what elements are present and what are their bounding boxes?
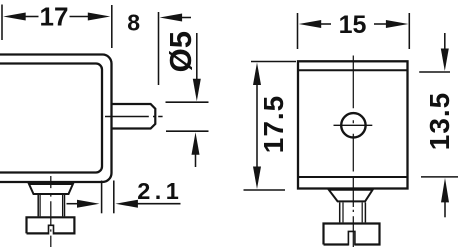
dim 17.5 top extension line [251,61,296,63]
dim 13.5 bottom extension line [421,176,458,178]
screw shank thread lines (right view) [339,203,341,223]
vertical center line (right view) [352,56,354,247]
dim 13.5 bottom arrow with tail [441,178,449,203]
svg-text:13.5: 13.5 [424,92,455,151]
dim 2.1 left arrow with tail [67,203,80,205]
svg-text:17.5: 17.5 [258,95,289,154]
bracket inner contour (left view) [0,64,102,173]
dim 17 dimension line [24,16,39,18]
dim 8 right extension line [158,12,160,85]
dim 13.5 top arrow with tail [444,33,446,51]
svg-text:2.1: 2.1 [137,178,183,204]
dim 17 right arrow / dim 8 left arrow [88,13,111,21]
screw flange trapezoid (right view) [329,190,373,202]
dim 17.5 dimension line [256,71,258,180]
bracket outer contour (left view) [0,55,112,183]
dim 2.1 extension lines [101,181,103,214]
dim Ø5 bottom extension line [166,130,209,132]
screw shank thread lines (left view) [37,195,39,216]
dim 17/8 shared extension line [111,5,113,48]
hole circle [341,113,365,137]
slot line through hole [334,124,373,126]
screw head (right view) [324,224,380,245]
dim 17 left extension line [1,5,3,41]
pin (left view) [113,104,156,129]
dim 15 right arrow [386,20,409,28]
dim 15 right extension line [408,13,410,49]
svg-text:8: 8 [127,10,140,36]
screw slot notch (right view) [348,231,355,245]
svg-text:17: 17 [40,2,69,32]
screw center line (left view) [50,176,52,247]
pin center line [105,116,163,118]
screw head (left view) [27,217,75,233]
dim Ø5 bottom up arrow [192,132,200,155]
dim 17 left arrow [3,13,26,21]
svg-text:15: 15 [339,11,367,39]
block bottom lip line [298,176,408,178]
dim 17.5 bottom extension line [244,189,286,191]
block top lip line [298,69,408,71]
dim Ø5 dimension line + down arrow [196,33,198,80]
dim 15 left arrow [299,20,322,28]
dim 8 right arrow with tail [160,14,183,22]
dim 17.5 down arrow [253,167,261,190]
screw flange trapezoid (left view) [29,184,73,194]
block outline (right view) [298,61,408,188]
dim 2.1 right arrow with leader [115,200,137,208]
dim 15 left extension line [297,13,299,49]
screw slot notch (left view) [49,225,54,234]
dim 17.5 up arrow [253,63,261,86]
dim Ø5 top extension line [166,101,209,103]
svg-text:Ø5: Ø5 [163,31,198,72]
dim 13.5 top extension line [419,71,450,73]
dim 15 dimension line [320,23,332,25]
